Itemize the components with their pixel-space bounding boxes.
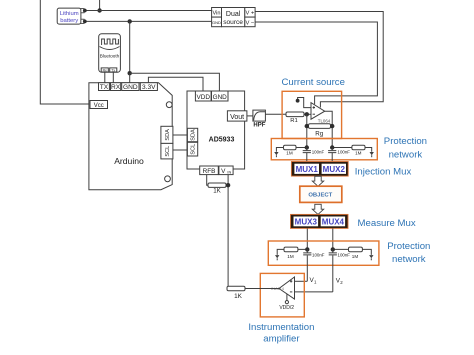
pin SCL ad5933 — [187, 142, 197, 156]
wire prot2 right branch — [333, 249, 372, 255]
wire HPF to R1 — [265, 113, 286, 115]
svg-text:SCL: SCL — [191, 144, 197, 155]
svg-text:Measure Mux: Measure Mux — [358, 218, 416, 229]
svg-text:Protection: Protection — [384, 136, 427, 147]
injection mux block — [291, 162, 348, 177]
svg-text:V +: V + — [245, 11, 254, 17]
wire mux4 down — [332, 228, 334, 249]
svg-text:Rx: Rx — [103, 68, 107, 72]
svg-text:TX: TX — [100, 84, 109, 91]
pin SDA arduino — [161, 126, 173, 143]
resistor R1 — [286, 112, 304, 124]
svg-text:TL064: TL064 — [318, 118, 331, 123]
svg-text:1M: 1M — [352, 254, 359, 259]
pin SCL arduino — [161, 143, 173, 159]
wire Rg right vertical down — [331, 126, 333, 147]
node battery plus junction — [97, 8, 101, 12]
svg-text:Dual: Dual — [226, 11, 241, 18]
pin Vcc — [90, 101, 108, 110]
bluetooth module BT1 — [99, 34, 121, 73]
wire prot1 right branch — [332, 148, 372, 152]
svg-text:Rg: Rg — [315, 131, 323, 138]
wire prot1 left branch — [276, 148, 306, 152]
svg-text:MUX1: MUX1 — [296, 165, 319, 174]
wire battery minus to GND of dual source — [85, 20, 212, 22]
svg-text:Arduino: Arduino — [114, 156, 144, 166]
svg-text:Instrumentation: Instrumentation — [248, 322, 314, 333]
arrow injection mux to object — [312, 176, 323, 186]
node Rg right — [330, 124, 334, 128]
svg-text:HPF: HPF — [253, 123, 265, 129]
svg-text:V: V — [221, 168, 226, 175]
svg-text:Injection Mux: Injection Mux — [355, 167, 412, 178]
wire R1 to inverting input — [304, 113, 311, 115]
svg-text:battery: battery — [60, 18, 78, 24]
capacitor C4 100nF — [329, 249, 351, 292]
capacitor C3 100nF — [303, 249, 325, 281]
filter HPF — [253, 110, 266, 129]
svg-text:RFB: RFB — [203, 168, 216, 175]
capacitor C1 100nF — [303, 148, 325, 162]
capacitor C2 100nF — [328, 148, 350, 162]
svg-text:RX: RX — [111, 84, 121, 91]
group box current source — [282, 91, 342, 138]
wire battery minus down — [129, 21, 131, 73]
wire Vin long vertical to instrumentation amp — [227, 175, 229, 287]
svg-text:VDD: VDD — [196, 94, 210, 101]
svg-text:GND: GND — [123, 84, 138, 91]
svg-text:3.3V: 3.3V — [142, 84, 156, 91]
wire RFB down — [207, 175, 208, 186]
svg-text:amplifier: amplifier — [263, 334, 300, 345]
wire 1K to Vin node — [226, 184, 228, 186]
ground prot2 right — [369, 255, 373, 260]
node prot1 left — [305, 145, 309, 149]
svg-text:network: network — [389, 149, 423, 160]
node Vin junction — [226, 183, 230, 187]
svg-text:100nF: 100nF — [338, 252, 351, 257]
svg-text:Vout: Vout — [230, 114, 244, 121]
battery B1 Lithium battery — [57, 8, 84, 24]
wire battery plus to Vin — [85, 10, 212, 12]
svg-text:GND: GND — [213, 94, 228, 101]
chip U3 AD5933 — [187, 91, 245, 169]
svg-text:1M: 1M — [287, 254, 294, 259]
pin Vout — [227, 111, 247, 121]
node prot1 right — [330, 145, 334, 149]
Arduino board — [89, 83, 172, 190]
pin SDA ad5933 — [187, 128, 197, 141]
wire non-inverting bias — [298, 98, 311, 108]
svg-text:MUX2: MUX2 — [323, 165, 346, 174]
ground prot2 left — [275, 255, 279, 260]
svg-text:100nF: 100nF — [338, 150, 351, 155]
svg-text:1M: 1M — [355, 151, 362, 156]
op-amp U1 TL064 — [311, 103, 331, 124]
svg-text:SDA: SDA — [191, 129, 197, 141]
wire Arduino 3.3V to AD5933 VDD — [148, 77, 203, 91]
svg-text:100nF: 100nF — [312, 252, 325, 257]
svg-text:SCL: SCL — [165, 146, 171, 157]
node prot2 right — [331, 247, 335, 251]
wire Rg left vertical — [306, 114, 308, 147]
pin VDD — [195, 91, 211, 101]
node bias terminal — [296, 99, 300, 103]
svg-text:Current source: Current source — [281, 77, 344, 88]
svg-text:1K: 1K — [213, 188, 221, 195]
svg-text:100nF: 100nF — [312, 150, 325, 155]
power module U2 Dual source — [212, 8, 256, 27]
svg-text:1K: 1K — [234, 293, 243, 300]
resistor R3 1M — [284, 145, 297, 155]
resistor R2 1K (feedback) — [208, 183, 226, 195]
svg-text:IN: IN — [227, 171, 231, 175]
node Rg left — [305, 124, 309, 128]
svg-text:network: network — [392, 254, 426, 265]
svg-text:OBJECT: OBJECT — [308, 193, 332, 199]
node battery minus terminal — [83, 20, 87, 24]
resistor R6 1M — [349, 247, 363, 259]
wire battery plus top stub — [99, 0, 101, 11]
wire V+ from dual source to op-amp — [255, 12, 383, 108]
wire VDD/2 stub — [286, 294, 288, 301]
wire Vout to HPF — [247, 115, 253, 117]
node battery plus terminal — [83, 9, 87, 13]
wire mux3 down — [306, 228, 308, 249]
svg-text:GND: GND — [212, 20, 221, 25]
svg-text:Bluetooth: Bluetooth — [100, 54, 120, 59]
svg-text:R1: R1 — [290, 118, 298, 124]
wire prot2 left branch — [277, 249, 307, 255]
wire V2 into inst amp — [295, 291, 333, 293]
wire SDA bus — [173, 134, 188, 136]
svg-text:1M: 1M — [286, 151, 293, 156]
pin RFB — [200, 166, 219, 175]
wire op-amp output down to Rg — [325, 111, 333, 126]
node battery minus junction — [128, 19, 132, 23]
ground prot1 left — [274, 152, 278, 157]
svg-text:SDA: SDA — [165, 129, 171, 141]
wire GND junction to Arduino GND pin — [129, 73, 131, 83]
arrow object to measure mux — [312, 204, 323, 214]
wire bluetooth Tx to Arduino RX — [112, 72, 114, 83]
pin TX — [99, 83, 110, 92]
terminal VDD/2 — [285, 301, 288, 304]
resistor R4 1M — [352, 145, 365, 155]
svg-text:V −: V − — [245, 20, 254, 26]
wire GND junction to AD5933 GND — [130, 73, 220, 91]
pin GND ad5933 — [212, 91, 229, 101]
resistor Rg — [307, 124, 332, 138]
node prot2 left — [305, 247, 309, 251]
pin RX — [111, 83, 121, 92]
group box protection network bottom — [268, 241, 379, 265]
svg-text:Tx: Tx — [111, 68, 115, 72]
node GND junction — [128, 71, 132, 75]
group box instrumentation amplifier — [260, 273, 304, 317]
node R1 junction — [305, 112, 309, 116]
wire inst amp output — [245, 288, 279, 290]
svg-text:Lithium: Lithium — [60, 11, 79, 17]
pin GND — [122, 83, 139, 92]
svg-text:MUX3: MUX3 — [295, 217, 318, 226]
block OBJECT — [300, 186, 342, 202]
wire V1 into inst amp — [295, 280, 308, 282]
svg-text:Vcc: Vcc — [94, 103, 104, 109]
resistor R7 1K input — [227, 286, 245, 300]
svg-text:source: source — [223, 19, 243, 26]
svg-text:Protection: Protection — [387, 241, 430, 252]
wire bluetooth Rx to Arduino TX — [104, 72, 106, 83]
measure mux block — [291, 214, 349, 228]
group box protection network top — [271, 139, 377, 160]
wire SCL bus — [173, 149, 188, 151]
svg-text:AD5933: AD5933 — [209, 137, 235, 144]
svg-text:MUX4: MUX4 — [322, 217, 345, 226]
wire Vcc feed (left vertical) — [40, 0, 90, 104]
svg-text:Vin: Vin — [213, 11, 221, 17]
ground prot1 right — [370, 152, 374, 157]
svg-text:VDD/2: VDD/2 — [279, 305, 294, 311]
pin VIN — [219, 166, 233, 175]
op-amp U4 INA114 instrumentation — [271, 277, 295, 299]
wire V- from dual source to op-amp — [255, 22, 377, 104]
resistor R5 1M — [284, 247, 298, 259]
pin 3.3V — [140, 83, 157, 92]
